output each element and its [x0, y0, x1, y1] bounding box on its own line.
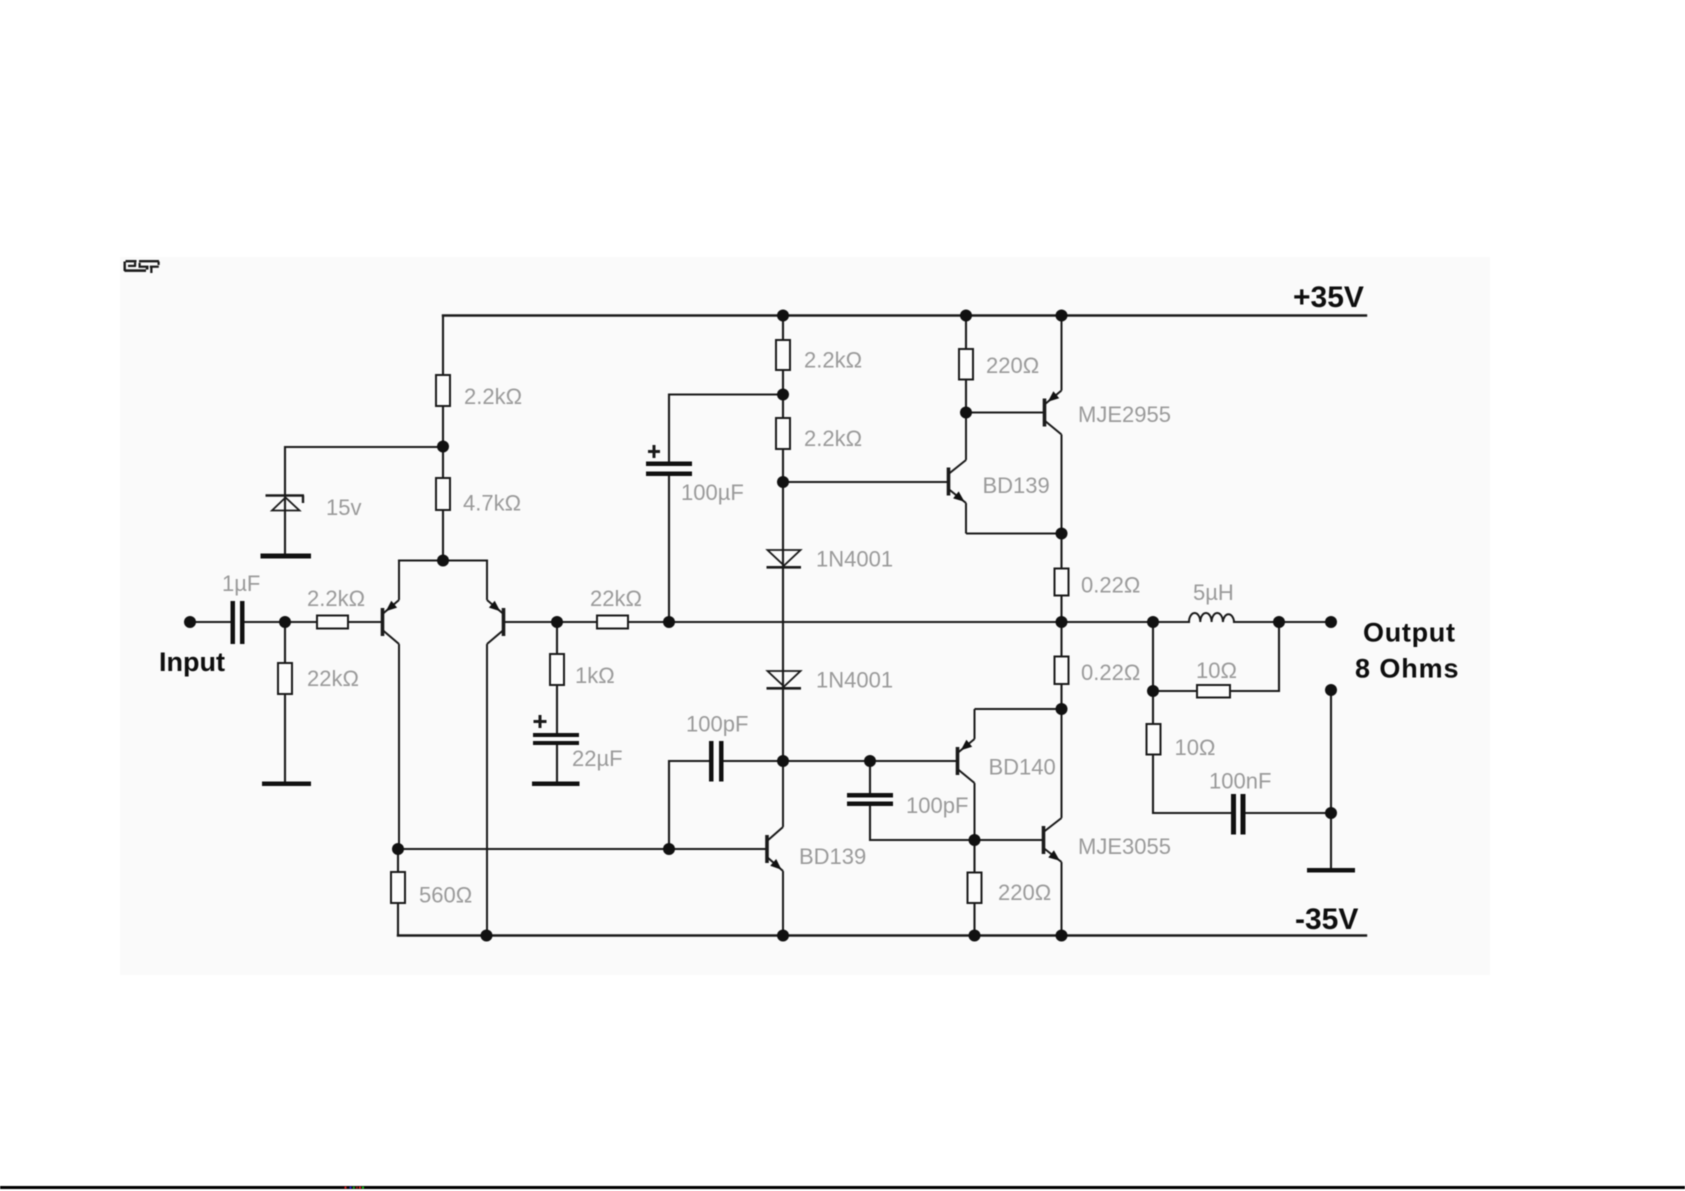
node 100nF / return — [1325, 807, 1337, 819]
transistor BD140 (lower driver, PNP) — [958, 709, 1062, 840]
node 220R rail — [960, 310, 972, 322]
node 100pF2 / BD140 base — [864, 755, 876, 767]
node LTP tail — [437, 555, 449, 567]
diode 1N4001 (upper) — [767, 550, 802, 567]
capacitor 100pF (lower) plates — [847, 793, 893, 798]
svg-text:100pF: 100pF — [686, 712, 748, 737]
svg-text:0.22Ω: 0.22Ω — [1081, 573, 1140, 598]
transistor MJE3055 (NPN output, bottom) — [1044, 709, 1062, 936]
resistor 220R (bottom) — [968, 873, 982, 904]
resistor 2.2k (VAS upper) — [776, 340, 790, 370]
svg-text:2.2kΩ: 2.2kΩ — [804, 426, 862, 451]
svg-text:BD139: BD139 — [983, 473, 1050, 498]
svg-text:100µF: 100µF — [681, 480, 744, 505]
svg-text:1N4001: 1N4001 — [816, 668, 893, 693]
capacitor 100nF plates — [1231, 794, 1236, 835]
svg-text:BD139: BD139 — [799, 844, 866, 869]
svg-text:22kΩ: 22kΩ — [590, 586, 642, 611]
bottom border line — [0, 1186, 1685, 1189]
wire +35V rail — [443, 314, 1366, 316]
transistor Q1 (LTP left, PNP) — [383, 561, 400, 850]
svg-text:Output: Output — [1363, 618, 1456, 648]
ground (zener) — [261, 554, 312, 559]
resistor 0.22R (upper) — [1055, 569, 1069, 596]
node Q2 collector rail — [481, 930, 493, 942]
svg-text:2.2kΩ: 2.2kΩ — [307, 586, 365, 611]
zener diode 15v — [266, 496, 305, 511]
svg-text:220Ω: 220Ω — [998, 880, 1051, 905]
svg-text:5µH: 5µH — [1193, 580, 1234, 605]
wire 10R damper row — [1153, 622, 1279, 691]
resistor 10R (zobel) — [1147, 724, 1161, 755]
svg-text:1µF: 1µF — [222, 571, 260, 596]
ground (22uF) — [532, 782, 580, 787]
wire output RL network — [1153, 622, 1331, 813]
node BD139u collector / MJE2955 base — [960, 407, 972, 419]
node 2.2k/2.2k 100uF tap — [777, 389, 789, 401]
wire BD139 upper base — [783, 481, 949, 483]
wire 100pF2 drop to MJE3055 base — [870, 761, 1044, 840]
wire input to Q1 base — [190, 621, 383, 623]
resistor 560R — [391, 872, 405, 903]
resistor 0.22R (lower) — [1055, 657, 1069, 685]
polarity + of 22uF — [534, 715, 547, 728]
svg-text:2.2kΩ: 2.2kΩ — [804, 348, 862, 373]
wire zener branch — [285, 447, 443, 554]
resistor 22k (input shunt) — [278, 663, 292, 694]
capacitor 22uF plates — [533, 733, 579, 737]
wire VAS / diode chain vertical — [782, 316, 784, 762]
svg-text:1kΩ: 1kΩ — [575, 663, 615, 688]
node VAS rail — [777, 310, 789, 322]
svg-text:Input: Input — [159, 647, 225, 677]
node diode chain / 100pF row — [777, 755, 789, 767]
node BD139 VAS emitter rail — [777, 930, 789, 942]
transistor BD139 (VAS, NPN) — [767, 761, 783, 936]
svg-text:22kΩ: 22kΩ — [307, 666, 359, 691]
wire left 2.2k/4.7k branch (rail to LTP tail) — [442, 316, 444, 561]
capacitor 100uF plates — [646, 462, 692, 467]
transistor MJE2955 (PNP output, top) — [1045, 316, 1062, 534]
node Q1 collector row — [392, 843, 404, 855]
node BD140 emitter / 0.22R — [1056, 703, 1068, 715]
node inductor left — [1147, 616, 1159, 628]
node 220R bottom rail — [969, 930, 981, 942]
polarity + of 100uF — [648, 445, 660, 458]
resistor 1k — [550, 654, 564, 685]
node damper 10R left — [1147, 685, 1159, 697]
node BD139u base tap — [777, 476, 789, 488]
resistor 22k (mid series) — [597, 616, 628, 629]
node BD140 collector / 220R / MJE3055 base — [969, 834, 981, 846]
svg-text:-35V: -35V — [1295, 903, 1358, 936]
inductor 5uH — [1189, 613, 1234, 622]
schematic panel background — [120, 257, 1490, 975]
svg-text:MJE3055: MJE3055 — [1078, 834, 1171, 859]
diode 1N4001 (lower) — [767, 671, 802, 688]
esp logo — [124, 260, 160, 273]
wire feedback 100pF row — [669, 761, 958, 849]
wire 1k / 22uF branch — [556, 622, 558, 782]
resistor 10R (damper) — [1197, 685, 1230, 698]
node speaker return terminal — [1325, 684, 1337, 696]
node output terminal — [1325, 616, 1337, 628]
node 22k / 100uF — [663, 616, 675, 628]
ground (input 22k) — [262, 782, 311, 787]
svg-text:MJE2955: MJE2955 — [1078, 402, 1171, 427]
node 100pF feedback drop — [663, 843, 675, 855]
svg-text:+35V: +35V — [1293, 281, 1364, 314]
capacitor 100pF (feedback) plates — [709, 741, 714, 782]
wire -35V rail — [398, 934, 1366, 936]
node Q2 base / 1k — [551, 616, 563, 628]
svg-text:22µF: 22µF — [572, 746, 623, 771]
svg-text:560Ω: 560Ω — [419, 883, 472, 908]
transistor Q2 (LTP right, PNP) — [487, 561, 504, 936]
svg-text:10Ω: 10Ω — [1175, 735, 1216, 760]
transistor BD139 (upper driver, NPN) — [949, 413, 1062, 534]
wire 0.22R output chain — [1060, 534, 1062, 710]
wire 22k input shunt to ground — [284, 622, 286, 782]
node MJE3055 emitter rail — [1056, 930, 1068, 942]
svg-text:220Ω: 220Ω — [986, 353, 1039, 378]
resistor 4.7k — [436, 478, 450, 510]
node input cap / 22k — [279, 616, 291, 628]
node input terminal — [184, 616, 196, 628]
resistor 2.2k (left, rail) — [436, 375, 450, 406]
node output mid — [1056, 616, 1068, 628]
wire speaker return to ground — [1330, 690, 1332, 868]
svg-text:15v: 15v — [326, 495, 361, 520]
wire mid line to output — [669, 621, 1331, 623]
svg-text:2.2kΩ: 2.2kΩ — [464, 384, 522, 409]
wire 220R top branch — [965, 316, 967, 413]
svg-text:0.22Ω: 0.22Ω — [1081, 660, 1140, 685]
node MJE2955 emitter rail — [1056, 310, 1068, 322]
wire Q1 collector row to BD139 lower base — [398, 848, 767, 850]
resistor 220R (top) — [959, 349, 973, 380]
ground (output zobel) — [1307, 868, 1355, 873]
wire Q2 base to 22k to node — [504, 621, 670, 623]
svg-text:100nF: 100nF — [1209, 769, 1271, 794]
node MJE2955 collector / 0.22R — [1056, 528, 1068, 540]
resistor 2.2k (VAS lower) — [776, 418, 790, 449]
wire BD139u collector node to MJE2955 base — [966, 411, 1045, 413]
svg-text:8 Ohms: 8 Ohms — [1355, 654, 1459, 684]
node inductor right — [1273, 616, 1285, 628]
wire 560R branch — [397, 849, 399, 936]
node zener / 2.2k / 4.7k — [437, 441, 449, 453]
capacitor 1uF plates — [231, 601, 236, 644]
svg-text:10Ω: 10Ω — [1196, 658, 1237, 683]
svg-text:100pF: 100pF — [906, 793, 968, 818]
resistor 2.2k (input series) — [317, 616, 348, 629]
wire 220R bottom branch — [973, 840, 975, 936]
wire LTP tail — [399, 559, 487, 561]
svg-text:4.7kΩ: 4.7kΩ — [463, 491, 521, 516]
svg-text:BD140: BD140 — [989, 755, 1056, 780]
svg-text:1N4001: 1N4001 — [816, 547, 893, 572]
wire 100uF branch — [669, 395, 783, 623]
